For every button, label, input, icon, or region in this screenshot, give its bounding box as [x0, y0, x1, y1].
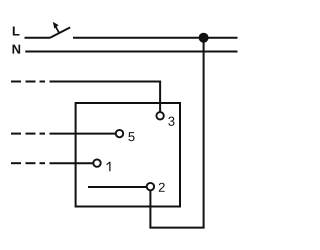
terminal 2 [147, 183, 154, 190]
dashed wire to terminal 1 [11, 162, 93, 164]
pin label 1 [107, 162, 111, 172]
junction dot on L wire [199, 33, 209, 43]
dashed wire to terminal 5 [11, 133, 115, 135]
wire L right segment [73, 37, 238, 39]
wire L left segment [25, 37, 51, 39]
pin label 3 [168, 117, 174, 126]
wire up to terminal 2 [149, 191, 151, 228]
wire bottom horizontal [149, 227, 204, 229]
pin label 5 [128, 132, 134, 141]
pin label 2 [159, 183, 165, 192]
switch S1 blade [51, 27, 71, 37]
terminal 5 [116, 130, 123, 137]
wire junction down right side [203, 38, 205, 228]
switch actuator arrow [53, 22, 59, 33]
terminal 1 [93, 159, 100, 166]
device box [76, 103, 180, 207]
terminal 3 [156, 112, 163, 119]
internal stub wire of terminal 2 [88, 186, 147, 188]
label N [13, 45, 21, 54]
wire N [25, 51, 237, 53]
dashed wire to terminal 3 [11, 82, 161, 112]
label L [13, 27, 20, 36]
